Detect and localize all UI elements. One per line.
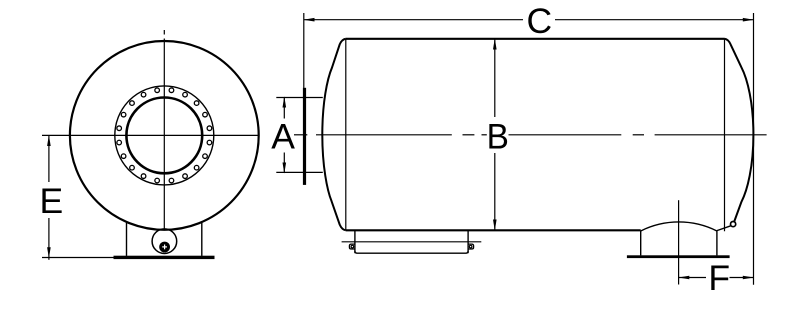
left anchor bolt lug [349,244,355,249]
dimension F line left segment with arrow [679,277,706,279]
saddle support arc top [641,222,717,231]
vertical centerline short dash (top) [163,30,165,35]
manway flange outer circle [115,86,214,185]
tank axis centerline dash-dot [294,134,767,136]
svg-text:E: E [40,181,64,221]
saddle support left edge [640,231,642,256]
svg-text:F: F [708,258,730,298]
base plate [114,256,215,259]
dimension A upper segment with arrow [283,98,285,119]
saddle support right edge [716,231,718,256]
left saddle support left edge [354,230,356,253]
dimension C line left segment with arrow [304,19,523,21]
tank shell end view outer circle [70,41,259,230]
left saddle base line [342,241,482,243]
dimension B lower segment with arrow [494,153,496,230]
dimension E arrow down [47,247,51,258]
drain fitting on right head [731,222,736,227]
shell bottom line [346,229,641,231]
dimension C left extension line [303,13,305,88]
E bottom extension line [42,257,114,259]
dimension C line right segment with arrow [555,19,754,21]
dimension B upper segment with arrow [494,39,496,117]
left head tangent seam [345,39,347,231]
drain boss white cross [162,245,167,250]
shell top line [346,38,725,40]
saddle base plate [627,255,730,258]
right dished head profile [725,39,754,222]
manway nozzle bottom line / A extension [276,171,323,173]
dimension E arrow up [47,135,51,146]
support leg right [201,223,203,256]
dimension C / F shared right extension line [753,13,755,285]
svg-text:B: B [487,118,509,157]
svg-text:A: A [271,116,295,156]
head-to-saddle weld line [717,226,731,231]
right anchor bolt lug [468,244,474,249]
dimension A lower segment with arrow [283,153,285,173]
drain boss circle [152,229,177,254]
svg-text:C: C [526,1,552,41]
dimension E line upper segment [48,135,50,182]
bolt holes (20 on bolt circle) [117,88,212,183]
saddle centerline [678,200,680,284]
right anchor bolt [469,245,472,248]
left anchor bolt [351,245,354,248]
manway flange bar [303,88,306,185]
drain boss filled dot [159,242,170,253]
left dished head profile [322,39,346,231]
left saddle support right edge [467,230,469,253]
dimension E line lower segment [48,218,50,260]
horizontal centerline [42,134,260,136]
manway nozzle top line / A extension [276,97,323,99]
right head tangent seam [724,39,726,232]
manway opening inner circle [126,97,202,173]
left saddle support bottom edge with rounded corners [355,251,468,253]
support leg left [126,223,128,256]
dimension F line right segment with arrow [730,277,754,279]
vertical centerline long dash [163,39,165,231]
